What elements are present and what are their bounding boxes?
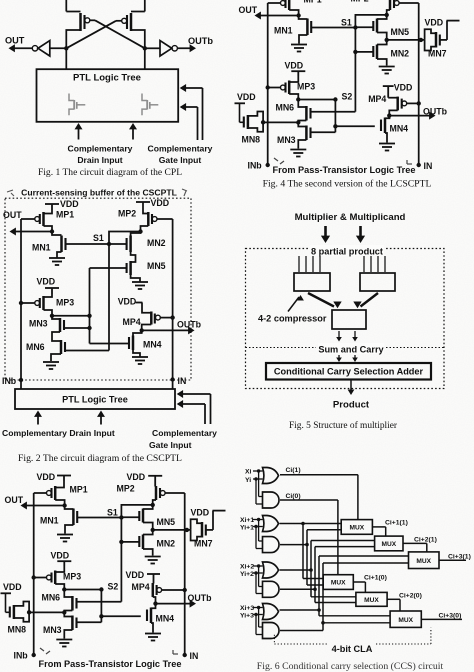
- label Xi+3/Yi+3: [240, 605, 254, 619]
- wire MP1 drain (fig4): [289, 10, 298, 16]
- wire MP2 drain: [141, 226, 149, 232]
- wire MN4 source 3 (fig4): [385, 133, 387, 143]
- label 4-bit CLA: [332, 644, 373, 654]
- input lines compressor 1: [299, 256, 320, 272]
- wire Xi+1 in: [253, 518, 263, 541]
- svg-text:MN1: MN1: [274, 26, 293, 36]
- ground g2c: [43, 362, 59, 369]
- power VDD3: [37, 277, 60, 295]
- transistor MN5-2: [127, 252, 166, 275]
- transistor MP4-3 (fig4): [368, 94, 407, 111]
- wire Yi+3 in: [253, 613, 263, 635]
- transistor MN7 (fig4): [425, 29, 447, 58]
- wire MN2 drain 3 (fig4): [377, 40, 387, 45]
- svg-text:S2: S2: [108, 582, 119, 592]
- compressor box 2: [360, 273, 395, 291]
- label OUTb3 (fig3): [188, 593, 213, 603]
- ground g3d (fig4): [379, 144, 395, 151]
- label OUTb: [188, 36, 213, 46]
- wire Ci+2(1): [403, 537, 437, 552]
- arrow gate input 1: [180, 84, 203, 140]
- svg-text:S1: S1: [93, 233, 104, 243]
- transistor MN2-3 (fig4): [353, 45, 409, 60]
- svg-text:Ci+2(1): Ci+2(1): [414, 537, 437, 544]
- label 4-2 compressor: [258, 314, 327, 324]
- wire INb vertical: [20, 219, 22, 380]
- svg-text:Complementary: Complementary: [152, 428, 217, 438]
- wire MN3 source: [52, 332, 60, 337]
- wire: [66, 0, 80, 12]
- wire S2 vertical: [89, 268, 91, 344]
- svg-text:MP1: MP1: [56, 210, 74, 220]
- wire MN2 source 3 (fig4): [377, 59, 387, 66]
- label OUT3 (fig4): [239, 5, 258, 15]
- ground g2a: [49, 258, 65, 265]
- wire MN1 source: [57, 252, 62, 258]
- svg-text:MN8: MN8: [242, 135, 261, 145]
- wire Ci+2(0): [387, 593, 422, 612]
- node S1-2: [93, 233, 111, 246]
- ghost transistor left: [69, 94, 85, 116]
- node S2-3 (fig3): [99, 582, 118, 592]
- svg-text:MUX: MUX: [398, 617, 413, 624]
- wire Ci+3(1): [439, 554, 471, 561]
- transistor MN6-2: [26, 337, 65, 354]
- dotted divider: [246, 347, 445, 349]
- node IN3 (fig4): [417, 161, 433, 171]
- transistor MN2-3 (fig3): [119, 535, 175, 550]
- wire MP3 drain 3 (fig4): [289, 94, 298, 100]
- wire MP1 gate: [21, 218, 35, 220]
- wire S2 to MN4 gate (fig4): [335, 125, 374, 127]
- power VDD-MP4 (fig4): [383, 82, 413, 97]
- arrow box1 to box3: [308, 293, 342, 308]
- node MP2d-3 (fig3): [151, 503, 155, 507]
- svg-text:Xi: Xi: [245, 469, 252, 476]
- svg-text:MP1: MP1: [70, 485, 88, 495]
- arrow drain input 1: [75, 123, 83, 140]
- wire Xi in: [253, 469, 263, 496]
- title tick right: [182, 189, 187, 196]
- ground g3b (fig3): [145, 557, 161, 564]
- svg-text:S2: S2: [342, 92, 353, 102]
- svg-text:INb: INb: [14, 651, 29, 661]
- wire Ci+3(0): [421, 612, 462, 619]
- svg-text:Product: Product: [333, 400, 370, 411]
- node S1-3 (fig4): [341, 18, 358, 30]
- caption fig5: [289, 420, 398, 431]
- svg-text:Complementary Drain Input: Complementary Drain Input: [2, 428, 115, 438]
- power VDD-MP2 (fig3): [127, 472, 163, 486]
- arrow product: [348, 381, 355, 396]
- ground g3b (fig4): [379, 67, 395, 74]
- caption fig2: [18, 453, 182, 464]
- arrow up 1: [34, 411, 42, 425]
- node S2-MN4 (fig3): [99, 614, 103, 618]
- svg-text:Conditional Carry Selection Ad: Conditional Carry Selection Adder: [274, 367, 424, 377]
- svg-text:OUT: OUT: [5, 495, 24, 505]
- svg-text:PTL Logic Tree: PTL Logic Tree: [73, 73, 141, 84]
- wire: [145, 47, 160, 49]
- svg-text:VDD: VDD: [394, 82, 413, 92]
- svg-text:MP2: MP2: [118, 209, 136, 219]
- transistor MN1-3 (fig3): [40, 506, 77, 526]
- svg-text:MN7: MN7: [428, 49, 447, 59]
- label Complementary Drain Input: [68, 144, 133, 165]
- svg-text:MP2: MP2: [117, 484, 135, 494]
- node S2a: [50, 314, 92, 318]
- caption fig4: [263, 179, 432, 190]
- mux M5: [356, 592, 387, 606]
- wire Ci+1(1): [372, 519, 407, 536]
- svg-text:MP2: MP2: [351, 0, 369, 4]
- transistor MN3-3 (fig4): [277, 122, 311, 145]
- label OUTb2: [177, 320, 202, 330]
- transistor MP3-3 (fig4): [281, 76, 316, 94]
- transistor MP3-3 (fig3): [47, 566, 82, 584]
- node OUT2: [50, 229, 54, 233]
- svg-text:MN3: MN3: [43, 625, 62, 635]
- node INb3 (fig4): [248, 161, 270, 171]
- svg-text:VDD: VDD: [127, 472, 146, 482]
- transistor MP3-2: [35, 294, 74, 310]
- svg-text:VDD: VDD: [285, 61, 304, 71]
- ground g3d (fig3): [145, 634, 161, 641]
- power VDD-MN8 (fig4): [235, 92, 256, 103]
- svg-text:Ci+1(0): Ci+1(0): [364, 574, 387, 581]
- svg-text:MP3: MP3: [63, 572, 81, 582]
- svg-text:MP1: MP1: [304, 0, 322, 5]
- node OUTb3 (fig4): [387, 113, 391, 117]
- label Xi+1/Yi+1: [240, 517, 254, 531]
- wire MN4 drain: [133, 330, 142, 335]
- arrow sum1: [336, 331, 342, 342]
- transistor MN7 (fig3): [191, 519, 213, 548]
- svg-text:MN4: MN4: [156, 614, 175, 624]
- power VDD1: [45, 199, 79, 210]
- gate G2: [263, 492, 280, 508]
- wire MP4 gate 3 (fig4): [407, 101, 421, 105]
- wire to MN7 (fig4): [387, 39, 425, 41]
- svg-text:Ci(0): Ci(0): [286, 493, 301, 500]
- wire MP4 drain 3 (fig4): [389, 110, 397, 115]
- power VDD-MP4 (fig3): [126, 570, 161, 584]
- node S2-MN4 (fig4): [333, 124, 337, 128]
- wire MN5 source (fig3): [143, 523, 153, 530]
- ground g3c (fig4): [290, 150, 306, 157]
- arrow gate input 2: [180, 103, 198, 140]
- svg-text:VDD: VDD: [3, 582, 22, 592]
- svg-text:Fig. 5 Structure of multipl: Fig. 5 Structure of multiplier: [289, 420, 398, 431]
- wire S2 to MN4 gate (fig3): [101, 615, 140, 617]
- gate G4: [263, 537, 280, 553]
- ground g2d: [132, 357, 148, 364]
- wire g7 out: [280, 556, 409, 616]
- wire MP3 gate: [19, 301, 35, 305]
- svg-text:MP4: MP4: [368, 94, 386, 104]
- svg-text:MN2: MN2: [391, 49, 410, 59]
- wire MN5 source: [131, 275, 140, 282]
- arrow drain input 2: [129, 123, 137, 140]
- label OUT3 (fig3): [5, 495, 24, 505]
- CCS adder box: [266, 363, 431, 380]
- svg-text:VDD: VDD: [60, 199, 79, 209]
- svg-text:Fig. 4 The second version o: Fig. 4 The second version of the LCSCPTL: [263, 179, 432, 190]
- svg-text:MUX: MUX: [416, 558, 431, 565]
- transistor MP2-2: [118, 202, 157, 226]
- dashed buffer box: [5, 198, 191, 380]
- wire S2 to MN4: [90, 343, 130, 345]
- node MP2d-3 (fig4): [385, 13, 389, 17]
- svg-text:S1: S1: [341, 18, 352, 28]
- svg-text:Fig. 6 Conditional carry sele: Fig. 6 Conditional carry selection (CCS)…: [257, 661, 444, 672]
- caption fig3 cut: [34, 671, 187, 672]
- wire Ci(0): [280, 493, 338, 575]
- transistor MN5-3 (fig4): [373, 15, 409, 37]
- svg-text:MN5: MN5: [147, 261, 166, 271]
- wire: [65, 48, 67, 69]
- transistor MN1-3 (fig4): [274, 16, 311, 36]
- svg-text:From Pass-Transistor Logic Tre: From Pass-Transistor Logic Tree: [39, 659, 182, 669]
- transistor MP2-3 (fig4): [351, 0, 400, 10]
- wire MN3 source 3 (fig4): [298, 140, 306, 149]
- wire Yi in: [253, 477, 263, 504]
- svg-text:Fig. 1 The circuit diagram of: Fig. 1 The circuit diagram of the CPL: [38, 167, 182, 178]
- mux M4: [323, 575, 353, 590]
- wire MP1 gate (fig3): [34, 492, 47, 494]
- svg-text:Ci+2(0): Ci+2(0): [399, 593, 422, 600]
- svg-text:INb: INb: [248, 161, 263, 171]
- node MN6s (fig4): [296, 120, 300, 124]
- wire MN2 drain 3 (fig3): [143, 530, 153, 535]
- wire MP2 drain 3 (fig4): [387, 10, 390, 15]
- wire MN1 source (fig3): [65, 525, 73, 534]
- node OUT3 (fig4): [296, 13, 300, 17]
- wire Yi+1 in: [253, 525, 263, 549]
- svg-text:8 partial product: 8 partial product: [311, 247, 383, 257]
- wire MP4 drain: [142, 325, 152, 331]
- wire MN8 link (fig3): [29, 611, 64, 613]
- wire MN6 source 3 (fig4): [298, 121, 306, 123]
- PTL logic tree box: [37, 69, 179, 122]
- caption from pass-transistor (fig4): [273, 165, 416, 175]
- svg-text:OUTb: OUTb: [177, 320, 202, 330]
- wire MN3 gate 3 (fig4): [311, 131, 336, 133]
- wire MP2 drain 3 (fig3): [153, 500, 156, 505]
- svg-text:Xi+2: Xi+2: [240, 564, 254, 571]
- svg-text:VDD: VDD: [425, 18, 444, 28]
- wire S2 vertical 3 (fig4): [334, 100, 336, 133]
- svg-text:MUX: MUX: [381, 541, 396, 548]
- wire S1 vertical 3 (fig3): [120, 518, 122, 602]
- label Complementary Gate Input: [148, 144, 213, 165]
- transistor MP2-3 (fig3): [117, 484, 166, 501]
- wire S1 riser 3 (fig3): [121, 505, 152, 518]
- svg-text:MN6: MN6: [42, 593, 61, 603]
- node MN5s (fig4): [385, 38, 389, 42]
- gate G6: [263, 581, 280, 597]
- wire: [172, 380, 174, 390]
- inverter right: [160, 41, 177, 56]
- transistor MN1-2: [32, 232, 66, 253]
- svg-text:VDD: VDD: [126, 570, 145, 580]
- arrow pp1: [321, 226, 330, 243]
- dashed box fig5: [246, 249, 445, 389]
- svg-text:MP3: MP3: [297, 82, 315, 92]
- svg-text:OUT: OUT: [5, 36, 25, 46]
- label comp drain input 2: [2, 428, 115, 438]
- wire MN5 gate: [90, 267, 127, 269]
- svg-text:MN1: MN1: [32, 243, 51, 253]
- ghost transistor right: [142, 94, 158, 116]
- svg-text:IN: IN: [190, 651, 199, 661]
- node OUTb-int: [143, 46, 147, 50]
- wire OUT arrow: [9, 44, 33, 52]
- gate G3: [263, 516, 279, 532]
- wire g8 out: [280, 563, 409, 631]
- wire OUT3 arrow (fig3): [21, 502, 65, 510]
- wire MN7 gate (fig3): [206, 511, 213, 530]
- wire to MN7 (fig3): [153, 529, 191, 531]
- arrow up 2: [97, 411, 105, 425]
- wire MP2 gate 3 (fig3): [165, 492, 185, 494]
- mux M6: [390, 611, 421, 627]
- wire S1 vertical 3 (fig4): [354, 28, 356, 112]
- svg-text:Complementary: Complementary: [68, 144, 133, 154]
- node S2-3 (fig4): [333, 92, 352, 102]
- svg-text:OUT: OUT: [239, 5, 258, 15]
- wire MP2 gate: [157, 218, 173, 220]
- wire MN5 gate (fig4): [355, 26, 373, 28]
- wire S1 vertical: [108, 244, 110, 351]
- node S1-3 (fig3): [107, 508, 124, 520]
- node MN6s (fig3): [62, 610, 66, 614]
- wire MN6 gate 3 (fig4): [311, 111, 356, 113]
- svg-text:VDD: VDD: [37, 472, 56, 482]
- node IN3 (fig3): [183, 651, 199, 661]
- wire MP3 drain: [44, 310, 53, 316]
- wire Xi+2 in: [253, 564, 263, 586]
- label 8 partial product: [310, 245, 384, 257]
- arrow label to box1: [288, 295, 304, 312]
- wire MN6 source: [51, 354, 61, 361]
- transistor MN8 (fig4): [240, 103, 266, 144]
- wire: [20, 380, 22, 389]
- wire S2 vertical 3 (fig3): [100, 590, 102, 623]
- label product: [333, 400, 370, 411]
- label Xi+2/Yi+2: [240, 564, 254, 578]
- transistor MN3-3 (fig3): [43, 612, 77, 635]
- node MP2d: [138, 229, 142, 233]
- svg-text:MN7: MN7: [194, 539, 213, 549]
- wire: [50, 47, 67, 49]
- power VDD-MN7 (fig3): [191, 508, 226, 518]
- wire g5 out: [280, 541, 375, 597]
- svg-text:S1: S1: [107, 508, 118, 518]
- wire S1 riser 3 (fig4): [355, 15, 386, 28]
- svg-text:MN8: MN8: [8, 625, 27, 635]
- input lines compressor 2: [364, 256, 385, 272]
- svg-text:Current-sensing buffer of the: Current-sensing buffer of the CSCPTL: [21, 188, 177, 198]
- wire: [131, 0, 145, 12]
- svg-text:Ci(1): Ci(1): [286, 467, 301, 474]
- wire MP4 gate 3 (fig3): [162, 588, 187, 592]
- wire Xi+3 in: [253, 606, 263, 627]
- svg-text:MN4: MN4: [390, 124, 409, 134]
- wire g4 out: [280, 530, 341, 585]
- node OUTb3 (fig3): [153, 601, 157, 605]
- label CCS adder: [274, 367, 424, 377]
- transistor MP1 (fig3): [47, 481, 88, 500]
- transistor MN6-3 (fig3): [42, 590, 77, 611]
- wire MP3 gate 3 (fig4): [266, 85, 281, 89]
- svg-text:Ci+1(1): Ci+1(1): [385, 519, 408, 526]
- gate G8: [263, 623, 280, 639]
- svg-text:VDD: VDD: [118, 297, 137, 307]
- svg-text:Yi+3: Yi+3: [240, 612, 254, 619]
- wire IN vertical 3 (fig4): [418, 3, 420, 165]
- wire S2 link (fig3): [64, 589, 101, 591]
- svg-text:MN3: MN3: [29, 319, 48, 329]
- node INb3 (fig3): [14, 651, 36, 661]
- power VDD-MN8 (fig3): [1, 582, 22, 593]
- compressor box 3: [332, 310, 366, 329]
- svg-text:4-bit CLA: 4-bit CLA: [332, 644, 373, 654]
- wire OUTb2 arrow: [142, 326, 195, 334]
- svg-text:MP4: MP4: [132, 582, 150, 592]
- svg-text:Gate Input: Gate Input: [149, 440, 192, 450]
- ground g3a (fig3): [57, 535, 73, 542]
- wire MN1 gate: [66, 243, 110, 245]
- caption fig1: [38, 167, 182, 178]
- wire MN3 gate: [64, 326, 92, 330]
- power VDD4: [118, 297, 143, 307]
- gate G5: [263, 562, 279, 578]
- wire MN4 source 3 (fig3): [151, 623, 153, 633]
- svg-text:Drain Input: Drain Input: [77, 155, 122, 165]
- wire MN7 gate (fig4): [440, 21, 447, 40]
- wire MN6 gate 3 (fig3): [77, 601, 122, 603]
- wire OUTb vertical: [172, 219, 174, 380]
- wire OUTb3 arrow (fig3): [156, 600, 197, 608]
- svg-text:Multiplier & Multiplicand: Multiplier & Multiplicand: [295, 212, 406, 223]
- svg-text:IN: IN: [178, 376, 187, 386]
- node S2-3a (fig3): [62, 587, 66, 591]
- arrow sum2: [352, 331, 358, 342]
- transistor P-right cross-coupled: [122, 13, 131, 31]
- transistor MP1 (fig4): [281, 0, 322, 10]
- svg-text:VDD: VDD: [151, 198, 170, 208]
- svg-text:MN5: MN5: [391, 27, 410, 37]
- wire MN6 source 3 (fig3): [64, 611, 72, 613]
- wire MP3 gate 3 (fig3): [32, 575, 47, 579]
- wire g3 out: [280, 522, 342, 579]
- svg-text:MN3: MN3: [277, 135, 296, 145]
- label sum and carry: [318, 343, 385, 355]
- svg-text:Xi+3: Xi+3: [240, 605, 254, 612]
- node MN5s (fig3): [151, 528, 155, 532]
- node MN7n (fig3): [185, 528, 189, 532]
- arrow gate in 1: [177, 390, 211, 424]
- wire drain right: [131, 30, 145, 48]
- wire MN3 gate 3 (fig3): [77, 621, 102, 623]
- svg-text:MN6: MN6: [276, 103, 295, 113]
- arrow gate in 2: [177, 400, 205, 424]
- wire MP4 drain 3 (fig3): [153, 597, 156, 604]
- svg-text:Ci+3(1): Ci+3(1): [448, 554, 471, 561]
- wire MN3 source 3 (fig3): [64, 630, 72, 639]
- mux M1: [341, 520, 372, 535]
